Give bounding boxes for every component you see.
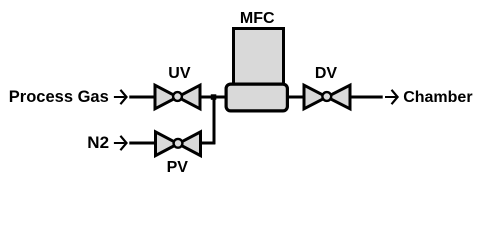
MFC base block (rounded) [226, 84, 287, 111]
wire valve PV to riser corner [200, 142, 215, 145]
arrow process-gas feed [114, 90, 127, 104]
valve DV [304, 85, 350, 109]
arrow N2 feed [114, 136, 127, 150]
svg-text:UV: UV [168, 65, 191, 82]
arrow chamber outlet [385, 90, 398, 104]
wire valve DV to chamber [349, 96, 383, 99]
svg-text:PV: PV [167, 159, 189, 176]
wire vertical junction to N2 line [213, 95, 216, 144]
node junction T (process/N2 tie point) [211, 94, 217, 100]
MFC sensor body (top box) [234, 29, 284, 87]
svg-text:DV: DV [315, 65, 338, 82]
svg-text:Chamber: Chamber [403, 89, 472, 106]
svg-text:MFC: MFC [240, 10, 275, 27]
valve PV [156, 132, 201, 156]
wire MFC outlet to valve DV [287, 96, 306, 99]
valve UV [155, 85, 200, 109]
wire valve UV to MFC inlet [199, 96, 228, 99]
svg-text:N2: N2 [87, 133, 109, 152]
wire N2 to valve PV [129, 142, 157, 145]
wire process-gas to valve UV [129, 96, 157, 99]
svg-text:Process Gas: Process Gas [9, 88, 109, 106]
